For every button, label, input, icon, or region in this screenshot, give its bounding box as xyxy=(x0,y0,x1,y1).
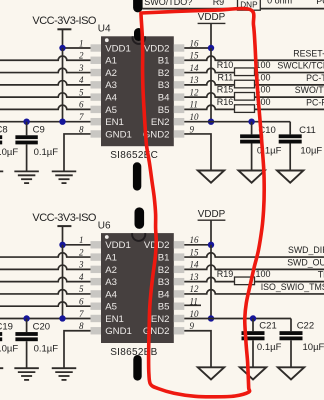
pin stub 10 (U6) xyxy=(174,315,185,322)
pin stub 15 (U4) xyxy=(174,57,185,64)
svg-text:4: 4 xyxy=(79,272,84,282)
wire net ISO_SWIO_TMS xyxy=(184,290,324,294)
svg-text:A4: A4 xyxy=(105,93,117,104)
ground C21 (triangle) xyxy=(240,367,266,379)
svg-text:GND1: GND1 xyxy=(105,129,132,140)
svg-text:7: 7 xyxy=(79,309,84,319)
svg-text:10: 10 xyxy=(190,309,200,319)
svg-text:C19: C19 xyxy=(0,321,13,332)
ground C20 (iso earth) xyxy=(14,367,38,369)
pin stub 9 (U4) xyxy=(174,130,185,137)
svg-text:B3: B3 xyxy=(158,80,170,91)
svg-text:0 ohm: 0 ohm xyxy=(267,0,292,6)
wire VCC vertical to EN1 xyxy=(62,48,64,122)
junction EN1/C-left xyxy=(23,118,29,124)
svg-text:EN2: EN2 xyxy=(151,314,170,325)
wire R19 to edge xyxy=(255,281,324,283)
ground C19 (cut) xyxy=(0,367,3,369)
svg-text:U4: U4 xyxy=(98,24,111,35)
wire GND1 xyxy=(64,331,91,368)
ground GND2 (triangle) (U4) xyxy=(198,171,224,183)
pin stub 15 (U6) xyxy=(174,253,185,260)
wire GND2 (U6) xyxy=(184,331,211,368)
svg-text:10µF: 10µF xyxy=(300,146,322,157)
svg-text:VDD2: VDD2 xyxy=(144,43,170,54)
svg-text:C9: C9 xyxy=(33,124,45,135)
ground GND2 (triangle) (U6) xyxy=(198,367,224,379)
capsule pad U4 bottom xyxy=(133,162,141,190)
pin stub 4 (U4) xyxy=(91,81,102,88)
svg-text:B2: B2 xyxy=(158,68,170,79)
ground C9 (iso earth) xyxy=(14,170,38,172)
wire B row to R10 xyxy=(184,68,234,72)
pin stub 7 (U4) xyxy=(91,118,102,125)
wire A1 row xyxy=(0,253,91,257)
wire R10 to edge xyxy=(255,72,324,74)
IC U6 body xyxy=(101,233,174,343)
ground C8 (cut) xyxy=(0,170,3,172)
svg-text:B4: B4 xyxy=(158,93,170,104)
svg-text:100: 100 xyxy=(256,269,271,279)
wire VCC vertical to EN1 xyxy=(62,245,64,319)
wire GND2 (U4) xyxy=(184,134,211,171)
svg-text:EN2: EN2 xyxy=(151,117,170,128)
ground C11 (triangle) xyxy=(277,171,303,183)
svg-text:A1: A1 xyxy=(105,56,117,67)
resistor R19 xyxy=(235,277,255,285)
pin stub 5 (U4) xyxy=(91,93,102,100)
svg-text:3: 3 xyxy=(78,260,84,270)
capacitor C22 xyxy=(290,318,292,331)
svg-text:13: 13 xyxy=(190,272,200,282)
junction EN2/C (U4) xyxy=(248,118,254,124)
wire net SWD_DIR xyxy=(184,253,324,257)
svg-text:A5: A5 xyxy=(105,105,117,116)
wire VDD2 (U4) xyxy=(184,47,211,49)
capacitor C9 xyxy=(26,122,28,136)
svg-text:GND1: GND1 xyxy=(105,326,132,337)
junction EN1/VCC xyxy=(59,118,65,124)
pin stub 16 (U6) xyxy=(174,241,185,248)
junction EN2/VDDP (U6) xyxy=(208,315,214,321)
svg-text:16: 16 xyxy=(190,235,200,245)
junction EN2/VDDP (U4) xyxy=(208,118,214,124)
wire pin1 xyxy=(63,244,91,246)
junction EN1/C-left xyxy=(23,315,29,321)
svg-text:9: 9 xyxy=(190,321,195,331)
svg-text:U6: U6 xyxy=(98,221,111,232)
svg-text:12: 12 xyxy=(190,87,200,97)
capsule pad U6 bottom xyxy=(133,355,141,381)
ground C22 (triangle) xyxy=(278,367,304,379)
svg-text:PC-TX: PC-TX xyxy=(306,73,324,83)
svg-text:A5: A5 xyxy=(105,302,117,313)
svg-text:14: 14 xyxy=(190,63,200,73)
pin stub 7 (U6) xyxy=(91,315,102,322)
svg-text:13: 13 xyxy=(190,75,200,85)
pin stub 11 (U4) xyxy=(174,106,185,113)
svg-text:0.1µF: 0.1µF xyxy=(257,342,282,353)
svg-text:SI8652EC: SI8652EC xyxy=(110,150,158,161)
wire R16 to edge xyxy=(255,108,324,110)
svg-text:3: 3 xyxy=(78,63,84,73)
svg-text:B5: B5 xyxy=(158,105,170,116)
wire EN1 row xyxy=(0,121,91,123)
wire A2 row xyxy=(0,68,91,72)
svg-text:SI8652BB: SI8652BB xyxy=(110,347,157,358)
svg-text:VCC-3V3-ISO: VCC-3V3-ISO xyxy=(32,212,97,224)
wire A4 row xyxy=(0,290,91,294)
junction VDD2/VDDP (U6) xyxy=(208,242,214,248)
svg-text:2: 2 xyxy=(79,51,84,61)
wire EN2 row (U4) xyxy=(184,121,290,123)
pin stub 6 (U6) xyxy=(91,303,102,310)
wire EN2 row (U6) xyxy=(184,317,291,319)
pin stub 14 (U4) xyxy=(174,69,185,76)
svg-text:VDDP: VDDP xyxy=(198,12,226,23)
junction pin1/VCC xyxy=(59,45,65,51)
svg-text:0.1µF: 0.1µF xyxy=(34,344,59,355)
svg-text:VDD1: VDD1 xyxy=(105,43,131,54)
junction VDD2/VDDP (U4) xyxy=(208,45,214,51)
pin stub 3 (U6) xyxy=(91,266,102,273)
svg-text:9: 9 xyxy=(190,124,195,134)
wire VDD2 (U6) xyxy=(184,244,211,246)
power symbol VCC-3V3-ISO (U6 side) xyxy=(57,225,71,227)
svg-text:R9: R9 xyxy=(213,0,225,7)
annotation red loop xyxy=(141,8,264,396)
svg-text:B2: B2 xyxy=(158,265,170,276)
svg-text:B1: B1 xyxy=(158,56,170,67)
pin stub 12 (U4) xyxy=(174,93,185,100)
svg-text:11: 11 xyxy=(190,100,198,110)
pin stub 1 (U6) xyxy=(91,241,102,248)
svg-text:SWCLK/TCK: SWCLK/TCK xyxy=(277,61,324,71)
svg-text:C20: C20 xyxy=(33,321,50,332)
pin stub 10 (U4) xyxy=(174,118,185,125)
pin stub 14 (U6) xyxy=(174,266,185,273)
wire A1 row xyxy=(0,56,91,60)
svg-text:4: 4 xyxy=(79,75,84,85)
wire R11 to edge xyxy=(255,84,324,86)
svg-text:C21: C21 xyxy=(259,320,276,331)
wire A2 row xyxy=(0,265,91,269)
pin stub 13 (U6) xyxy=(174,278,185,285)
wire A3 row xyxy=(0,81,91,85)
svg-text:VCC-3V3-ISO: VCC-3V3-ISO xyxy=(32,15,97,27)
svg-text:5: 5 xyxy=(79,87,84,97)
svg-text:10: 10 xyxy=(190,112,200,122)
svg-text:B1: B1 xyxy=(158,252,170,263)
svg-text:SWO/TDO?: SWO/TDO? xyxy=(144,0,192,7)
wire A5 row xyxy=(0,105,91,109)
ground C10 (triangle) xyxy=(238,171,264,183)
capsule pad U6 above xyxy=(135,207,145,229)
pin stub 11 (U6) xyxy=(174,303,185,310)
resistor R15 xyxy=(235,93,255,101)
DNP box xyxy=(238,0,261,10)
svg-text:7: 7 xyxy=(79,112,84,122)
ground GND1 (iso earth) xyxy=(52,170,77,172)
capacitor C11 xyxy=(289,122,291,135)
resistor R11 xyxy=(235,80,255,88)
junction EN2/C (U6) xyxy=(250,315,256,321)
capsule pad U4 top xyxy=(134,28,143,41)
wire EN1 row xyxy=(0,317,91,319)
svg-text:6: 6 xyxy=(79,297,84,307)
pin stub 6 (U4) xyxy=(91,106,102,113)
pin stub 3 (U4) xyxy=(91,69,102,76)
wire VDDP vertical (U4) xyxy=(210,48,212,122)
wire A5 row xyxy=(0,302,91,306)
junction pin1/VCC xyxy=(59,242,65,248)
wire net RESET-IS xyxy=(184,56,324,60)
svg-text:10µF: 10µF xyxy=(303,342,324,353)
svg-text:A3: A3 xyxy=(105,80,117,91)
wire R15 to edge xyxy=(255,96,324,98)
svg-text:ISO_SWIO_TMS: ISO_SWIO_TMS xyxy=(261,282,324,292)
svg-text:8: 8 xyxy=(79,321,84,331)
capacitor C21 xyxy=(252,318,254,331)
svg-text:SWO/TDO: SWO/TDO xyxy=(295,85,324,95)
wire A4 row xyxy=(0,93,91,97)
wire net SWD_OUT xyxy=(184,265,324,269)
svg-text:C8: C8 xyxy=(0,124,8,135)
svg-text:R15: R15 xyxy=(217,85,234,95)
svg-text:16: 16 xyxy=(190,38,200,48)
svg-text:VDD1: VDD1 xyxy=(105,240,131,251)
power symbol VDDP (U4 side) xyxy=(198,22,226,24)
svg-text:1: 1 xyxy=(79,235,84,245)
svg-text:RESET-IS: RESET-IS xyxy=(293,48,324,58)
svg-text:A4: A4 xyxy=(105,289,117,300)
svg-text:1.0µF: 1.0µF xyxy=(0,147,18,158)
svg-text:14: 14 xyxy=(190,260,200,270)
IC U4 body xyxy=(101,36,174,146)
capacitor C20 xyxy=(26,318,28,332)
svg-text:A2: A2 xyxy=(105,68,117,79)
svg-text:C11: C11 xyxy=(299,125,316,136)
svg-text:SWD_OUT: SWD_OUT xyxy=(287,257,324,267)
pin stub 1 (U4) xyxy=(91,44,102,51)
svg-text:PC: PC xyxy=(316,0,324,6)
wire pin1 xyxy=(63,47,91,49)
svg-text:2: 2 xyxy=(79,247,84,257)
IC U6 pin1 mark xyxy=(105,235,109,239)
svg-text:A1: A1 xyxy=(105,252,117,263)
pin stub 8 (U4) xyxy=(91,130,102,137)
svg-text:B3: B3 xyxy=(158,277,170,288)
svg-text:PC-RX: PC-RX xyxy=(306,98,324,108)
resistor R16 xyxy=(235,105,255,113)
wire top net segment right xyxy=(260,8,324,10)
svg-text:R19: R19 xyxy=(217,269,234,279)
capacitor C10 xyxy=(251,122,253,135)
svg-text:B4: B4 xyxy=(158,289,170,300)
pin stub 12 (U6) xyxy=(174,290,185,297)
svg-text:SWD_DIR: SWD_DIR xyxy=(288,245,324,255)
svg-text:15: 15 xyxy=(190,51,200,61)
wire B5 stub (nc) (U6) xyxy=(184,304,201,306)
svg-text:8: 8 xyxy=(79,124,84,134)
capsule pad top edge xyxy=(133,0,143,12)
resistor R10 xyxy=(235,68,255,76)
svg-text:R16: R16 xyxy=(217,97,234,107)
pad circle U6 xyxy=(132,228,145,241)
junction EN1/VCC xyxy=(59,315,65,321)
pin stub 4 (U6) xyxy=(91,278,102,285)
wire VDDP vertical (U6) xyxy=(210,245,212,319)
svg-text:C22: C22 xyxy=(297,320,314,331)
svg-text:EN1: EN1 xyxy=(105,314,124,325)
pin stub 16 (U4) xyxy=(174,44,185,51)
svg-text:1.0µF: 1.0µF xyxy=(0,344,18,355)
pin stub 13 (U4) xyxy=(174,81,185,88)
power symbol VDDP (U6 side) xyxy=(198,219,226,221)
svg-text:TMS: TMS xyxy=(318,270,324,280)
pin stub 2 (U6) xyxy=(91,253,102,260)
svg-text:5: 5 xyxy=(79,284,84,294)
power symbol VCC-3V3-ISO (U4 side) xyxy=(57,28,71,30)
svg-text:B5: B5 xyxy=(158,302,170,313)
wire B row to R15 xyxy=(184,93,234,97)
svg-text:A2: A2 xyxy=(105,265,117,276)
pin stub 5 (U6) xyxy=(91,290,102,297)
pin stub 8 (U6) xyxy=(91,327,102,334)
wire B row to R11 xyxy=(184,81,234,85)
pad circle U4 xyxy=(133,31,146,44)
wire GND1 xyxy=(64,134,91,171)
svg-text:A3: A3 xyxy=(105,277,117,288)
svg-text:1: 1 xyxy=(79,38,84,48)
wire A3 row xyxy=(0,277,91,281)
svg-text:12: 12 xyxy=(190,284,200,294)
svg-text:15: 15 xyxy=(190,247,200,257)
svg-text:EN1: EN1 xyxy=(105,117,124,128)
svg-text:0.1µF: 0.1µF xyxy=(34,147,59,158)
ground GND1 (iso earth) xyxy=(52,367,77,369)
wire B row to R16 xyxy=(184,105,234,109)
wire top net segment left xyxy=(143,8,238,10)
pin stub 9 (U6) xyxy=(174,327,185,334)
svg-text:R10: R10 xyxy=(217,60,234,70)
svg-text:VDDP: VDDP xyxy=(198,209,226,220)
svg-text:R11: R11 xyxy=(217,72,233,82)
pin stub 2 (U4) xyxy=(91,57,102,64)
wire B row to R19 xyxy=(184,277,234,281)
IC U4 pin1 mark xyxy=(105,38,109,42)
svg-text:GND2: GND2 xyxy=(143,326,170,337)
svg-text:6: 6 xyxy=(79,100,84,110)
